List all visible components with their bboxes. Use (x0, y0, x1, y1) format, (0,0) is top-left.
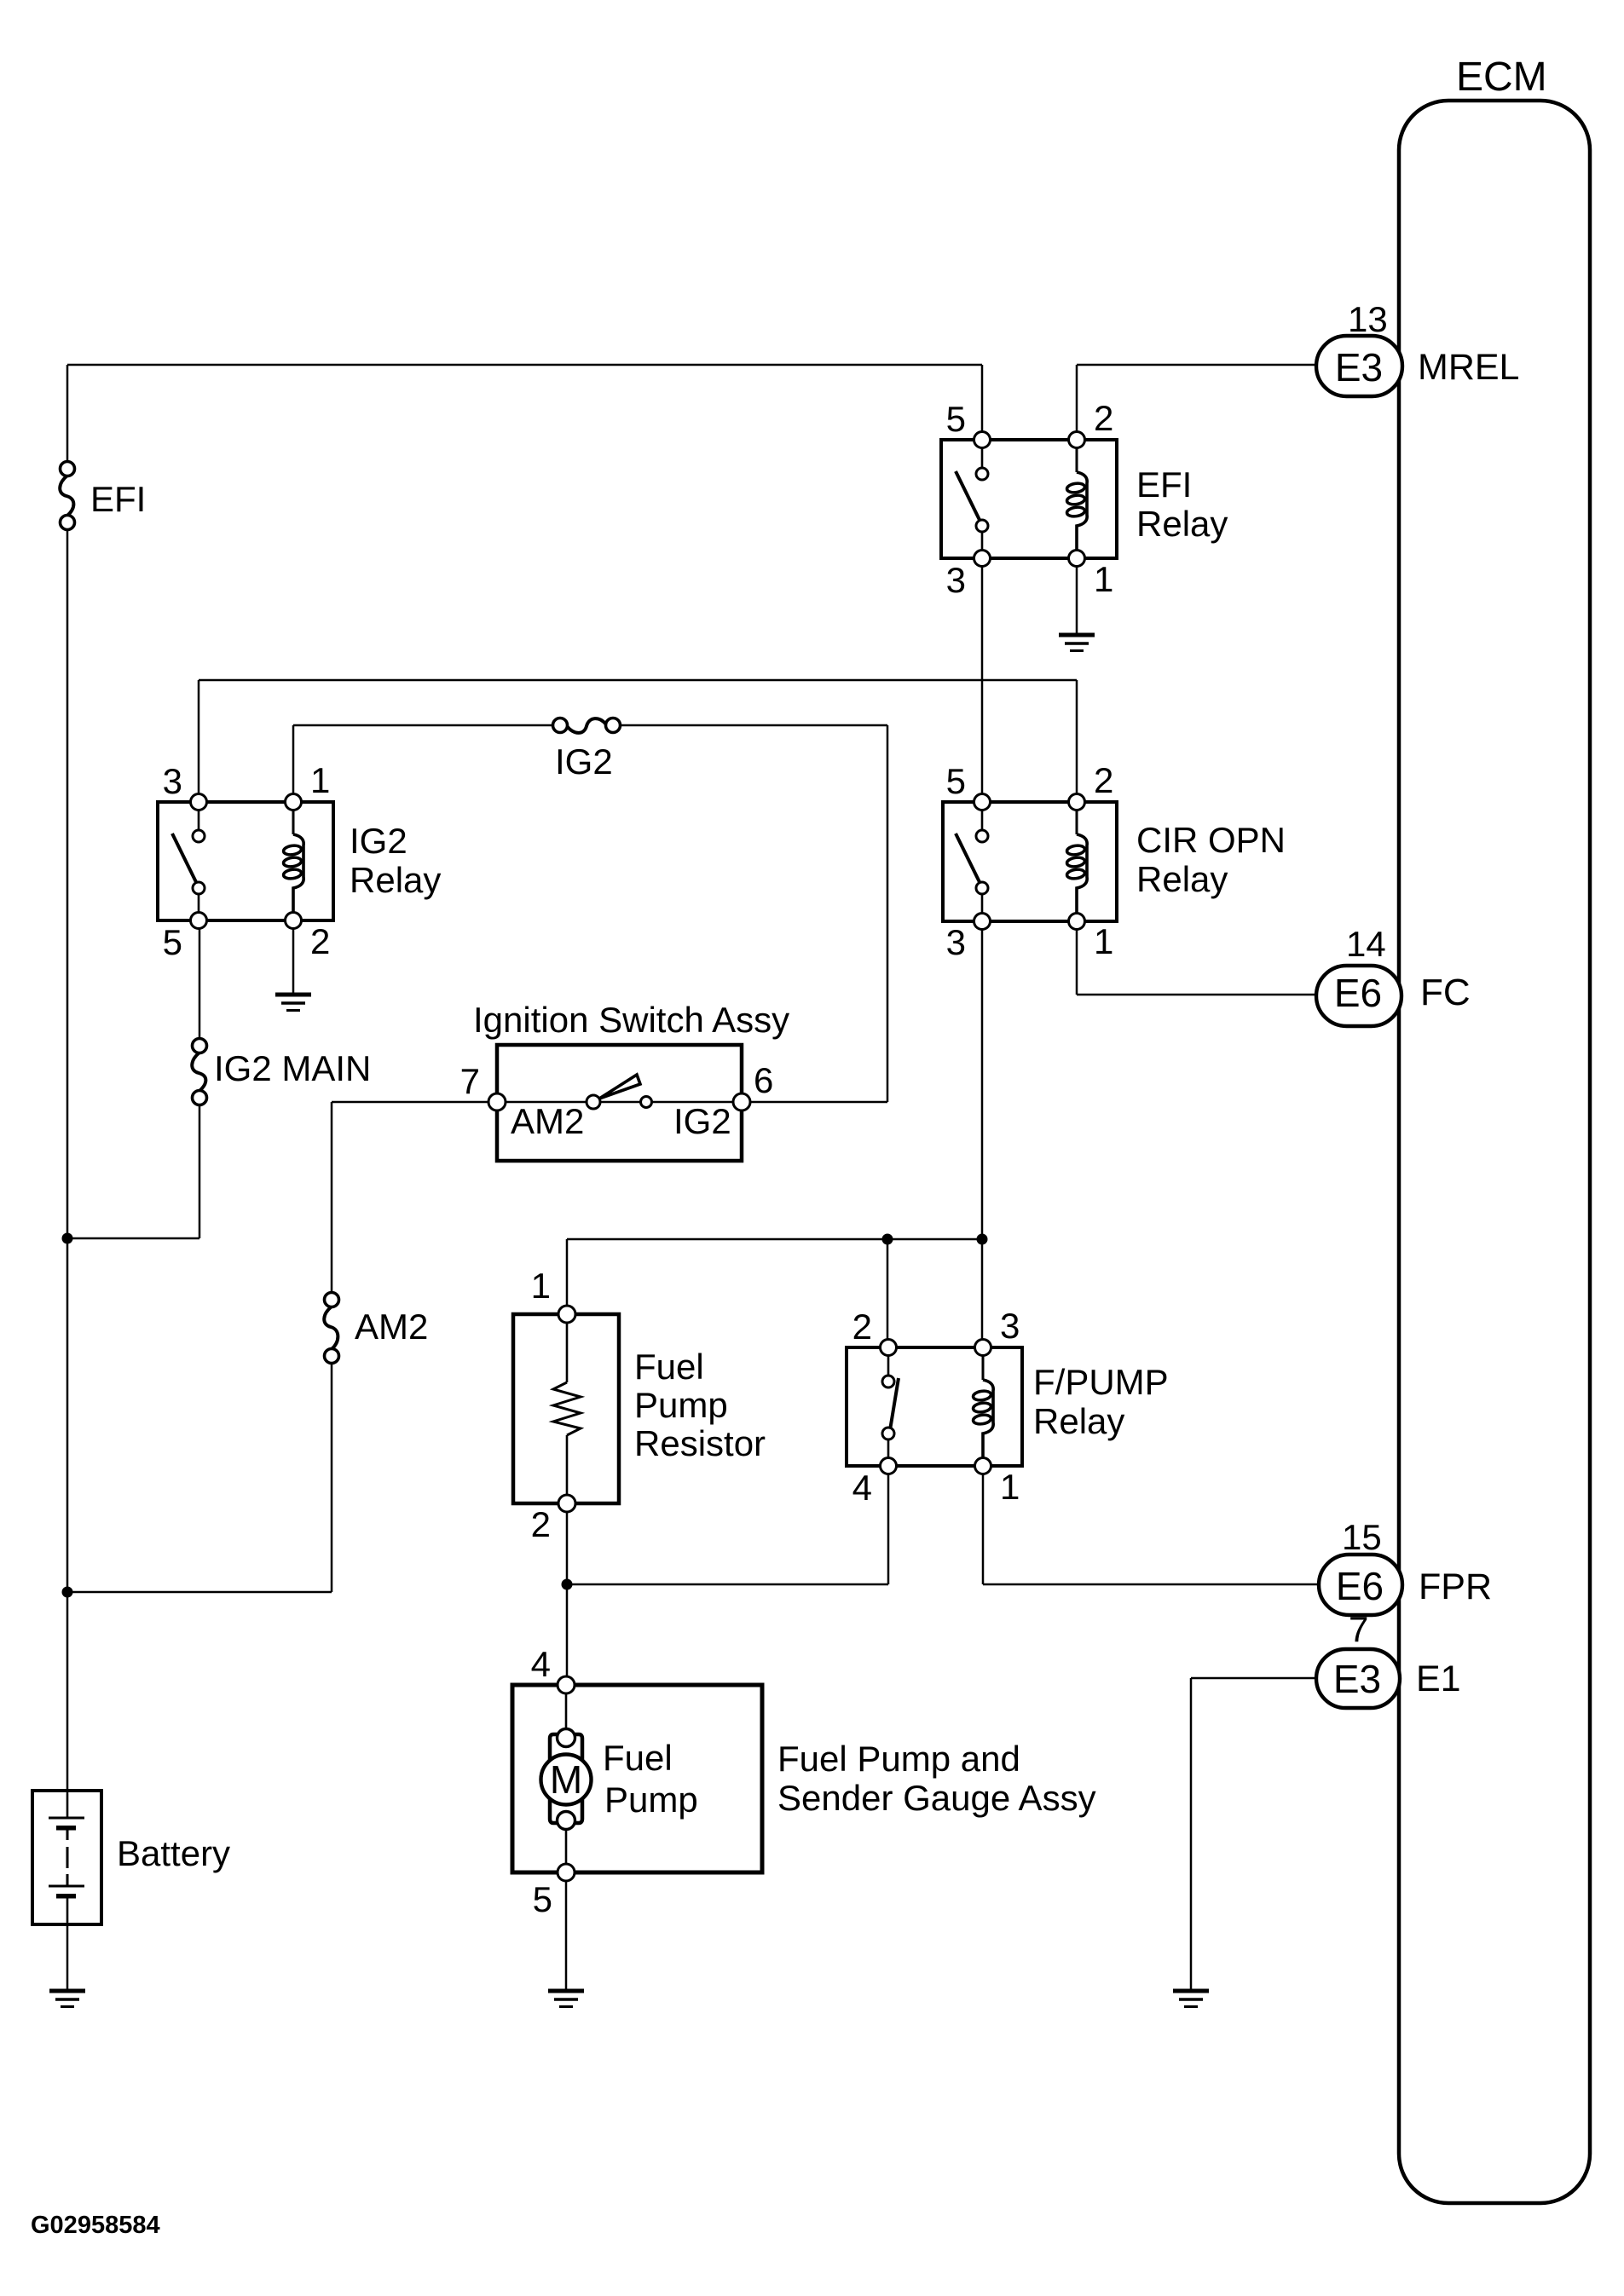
svg-text:IG2: IG2 (673, 1101, 731, 1141)
node junction resistor output / F/PUMP relay pin 4 branch (562, 1579, 573, 1590)
fuse AM2 (324, 1293, 338, 1364)
wire EFI fuse column from top wire to battery (66, 365, 69, 1794)
svg-text:5: 5 (533, 1879, 552, 1919)
connector E3 pin 13 MREL (1316, 299, 1519, 396)
svg-text:6: 6 (754, 1060, 773, 1100)
relay F/PUMP box (847, 1347, 1022, 1466)
svg-text:1: 1 (310, 760, 330, 800)
wire fuel pump resistor pin 2 down to fuel pump pin 4 (566, 1503, 569, 1685)
ground EFI relay pin 1 (1059, 635, 1095, 651)
connector E6 pin 14 FC (1316, 924, 1471, 1026)
relay CIR OPN coil (1066, 802, 1087, 921)
battery box (32, 1791, 101, 1924)
svg-text:14: 14 (1346, 924, 1386, 964)
svg-text:Ignition Switch Assy: Ignition Switch Assy (473, 1000, 789, 1040)
svg-text:Relay: Relay (1136, 504, 1228, 544)
label Fuel Pump (603, 1738, 698, 1820)
ignition switch contact IG2 (641, 1097, 652, 1108)
svg-text:3: 3 (946, 560, 966, 600)
wire F/PUMP relay pin 4 to resistor output junction (567, 1466, 888, 1584)
svg-text:3: 3 (946, 922, 966, 962)
pin 1 fuel pump resistor (531, 1266, 575, 1323)
svg-text:Pump: Pump (604, 1780, 698, 1820)
svg-text:IG2 MAIN: IG2 MAIN (214, 1048, 371, 1088)
relay IG2 box (158, 802, 333, 920)
svg-text:1: 1 (1094, 921, 1113, 961)
relay EFI box (941, 440, 1117, 558)
svg-text:IG2: IG2 (555, 741, 613, 782)
ground IG2 relay pin 2 (275, 995, 311, 1011)
pin 3 CIR OPN relay (946, 914, 991, 963)
svg-text:5: 5 (163, 922, 182, 962)
svg-text:3: 3 (1000, 1306, 1020, 1346)
svg-text:MREL: MREL (1418, 347, 1519, 388)
svg-text:E3: E3 (1335, 345, 1383, 389)
svg-text:4: 4 (531, 1644, 551, 1684)
battery symbol (49, 1794, 84, 1922)
svg-text:E3: E3 (1333, 1657, 1381, 1701)
pin 4 fuel pump (531, 1644, 575, 1693)
motor M fuel pump (541, 1693, 592, 1866)
fuse IG2 MAIN (192, 1039, 206, 1105)
pin 1 CIR OPN relay (1069, 914, 1114, 962)
svg-text:CIR OPN: CIR OPN (1136, 820, 1286, 860)
svg-text:E6: E6 (1334, 971, 1382, 1015)
svg-text:1: 1 (531, 1266, 551, 1306)
svg-text:5: 5 (946, 761, 966, 801)
pin 2 IG2 relay (286, 913, 331, 962)
wire junction down to F/PUMP relay pin 2 (887, 1239, 889, 1347)
ground fuel pump (548, 1991, 584, 2007)
svg-text:IG2: IG2 (350, 821, 407, 861)
ground ECM E1 (1173, 1991, 1209, 2007)
pin 3 IG2 relay (163, 761, 207, 811)
label IG2 Relay (350, 821, 441, 900)
pin 4 F/PUMP relay (852, 1458, 897, 1509)
svg-text:Fuel Pump and: Fuel Pump and (777, 1739, 1020, 1779)
wire EFI relay pin 3 to CIR OPN relay pin 5 (981, 558, 984, 802)
svg-text:AM2: AM2 (355, 1307, 428, 1347)
fuel pump and sender gauge assy box (512, 1685, 762, 1872)
wire fuel pump pin 5 to ground (565, 1872, 568, 1991)
pin 5 CIR OPN relay (946, 761, 991, 811)
svg-text:EFI: EFI (1136, 464, 1192, 505)
wire EFI relay pin 2 to ECM MREL E3 (1077, 365, 1316, 440)
svg-text:2: 2 (310, 921, 330, 961)
svg-text:Pump: Pump (634, 1385, 728, 1425)
wire junction to AM2 fuse column (67, 1358, 332, 1592)
ignition switch contact AM2 (587, 1095, 600, 1109)
svg-text:Relay: Relay (350, 860, 441, 900)
wire IG2 relay pin 1 via IG2 fuse to ignition switch pin 6 (293, 725, 887, 1102)
wire EFI relay pin 5 drop (981, 365, 984, 440)
svg-text:Relay: Relay (1136, 859, 1228, 899)
relay IG2 switch contact (172, 802, 205, 920)
node junction battery column / IG2 MAIN branch (62, 1233, 73, 1244)
node junction battery column / AM2 branch (62, 1587, 73, 1598)
svg-text:15: 15 (1342, 1517, 1382, 1557)
svg-text:Relay: Relay (1033, 1401, 1124, 1441)
wire F/PUMP relay pin 1 to ECM FPR E6 (983, 1466, 1319, 1584)
svg-text:2: 2 (852, 1307, 872, 1347)
svg-text:AM2: AM2 (511, 1101, 584, 1141)
label F/PUMP Relay (1033, 1362, 1169, 1441)
svg-text:Fuel: Fuel (634, 1347, 704, 1387)
ignition switch lever (599, 1075, 640, 1099)
svg-text:G02958584: G02958584 (31, 2212, 160, 2239)
pin 2 CIR OPN relay (1069, 760, 1114, 811)
svg-text:2: 2 (1094, 398, 1113, 438)
svg-text:M: M (550, 1757, 582, 1802)
svg-text:EFI: EFI (90, 479, 146, 519)
wire ECM E1 E3 to ground (1191, 1678, 1316, 1991)
pin 2 F/PUMP relay (852, 1307, 897, 1356)
svg-text:F/PUMP: F/PUMP (1033, 1362, 1169, 1402)
svg-text:1: 1 (1094, 559, 1113, 599)
ignition switch assy box (497, 1045, 742, 1161)
label CIR OPN Relay (1136, 820, 1286, 899)
relay F/PUMP switch contact (882, 1347, 899, 1466)
wire IG2 relay pin 3 up and across to CIR OPN relay pin 2 (199, 680, 1077, 802)
wire AM2 fuse to ignition switch pin 7 (332, 1102, 497, 1298)
svg-text:E1: E1 (1416, 1659, 1461, 1699)
connector E6 pin 15 FPR (1319, 1517, 1492, 1615)
svg-text:1: 1 (1000, 1467, 1020, 1507)
svg-text:ECM: ECM (1456, 55, 1547, 100)
svg-text:Fuel: Fuel (603, 1738, 673, 1778)
pin 1 F/PUMP relay (975, 1458, 1020, 1508)
pin 7 ignition switch (460, 1061, 506, 1111)
label Fuel Pump and Sender Gauge Assy (777, 1739, 1096, 1818)
svg-text:E6: E6 (1336, 1564, 1384, 1608)
wire CIR OPN relay pin 3 down to F/PUMP relay pin 3 (981, 921, 984, 1347)
svg-text:4: 4 (852, 1468, 872, 1508)
label Fuel Pump Resistor (634, 1347, 766, 1463)
wire battery to ground (66, 1922, 69, 1991)
svg-text:Sender Gauge Assy: Sender Gauge Assy (777, 1778, 1096, 1818)
svg-text:7: 7 (1349, 1609, 1368, 1649)
ECM connector outline (1399, 101, 1590, 2203)
relay IG2 coil (283, 802, 303, 920)
pin 5 EFI relay (946, 399, 991, 448)
svg-text:2: 2 (1094, 760, 1113, 800)
pin 3 F/PUMP relay (975, 1306, 1020, 1356)
wire junction to IG2 MAIN fuse column (67, 1099, 199, 1238)
fuse IG2 (553, 718, 621, 733)
wire IG2 MAIN fuse to IG2 relay pin 5 (199, 920, 201, 1044)
pin 5 fuel pump (533, 1864, 575, 1919)
resistor element (553, 1323, 581, 1495)
fuse EFI (60, 462, 74, 530)
ground battery (49, 1991, 85, 2007)
relay EFI coil (1066, 440, 1087, 558)
wire fuel pump resistor pin 1 branch across to relay column (567, 1239, 982, 1314)
svg-text:2: 2 (531, 1504, 551, 1544)
node junction branch / CIR OPN-F/PUMP column (977, 1234, 988, 1245)
svg-text:7: 7 (460, 1061, 480, 1101)
wire EFI relay pin 1 to ground (1076, 558, 1078, 636)
svg-text:FC: FC (1420, 972, 1471, 1013)
wire CIR OPN relay pin 1 to ECM FC E6 (1077, 921, 1316, 995)
relay CIR OPN box (943, 802, 1117, 921)
pin 2 fuel pump resistor (531, 1495, 575, 1544)
svg-text:3: 3 (163, 761, 182, 801)
svg-text:Resistor: Resistor (634, 1423, 766, 1463)
connector E3 pin 7 E1 (1316, 1609, 1461, 1708)
relay EFI switch contact (956, 440, 988, 558)
relay CIR OPN switch contact (956, 802, 988, 921)
pin 2 EFI relay (1069, 398, 1114, 448)
label EFI Relay (1136, 464, 1228, 544)
relay F/PUMP coil (973, 1347, 993, 1466)
svg-text:5: 5 (946, 399, 966, 439)
wire IG2 relay pin 2 to ground (292, 920, 295, 995)
pin 1 EFI relay (1069, 551, 1114, 600)
pin 5 IG2 relay (163, 913, 207, 963)
pin 3 EFI relay (946, 551, 991, 601)
wire ignition switch internal AM2-IG2 (497, 1101, 742, 1104)
node junction branch / F/PUMP relay pin 2 column (882, 1234, 893, 1245)
pin 1 IG2 relay (286, 760, 331, 811)
svg-text:FPR: FPR (1419, 1566, 1492, 1607)
svg-text:Battery: Battery (117, 1833, 230, 1873)
svg-text:13: 13 (1348, 299, 1388, 339)
fuel pump resistor box (513, 1314, 619, 1503)
pin 6 ignition switch (733, 1060, 773, 1111)
wire battery positive feed: top horizontal from EFI fuse column to EFI relay pin 5 (67, 364, 982, 366)
